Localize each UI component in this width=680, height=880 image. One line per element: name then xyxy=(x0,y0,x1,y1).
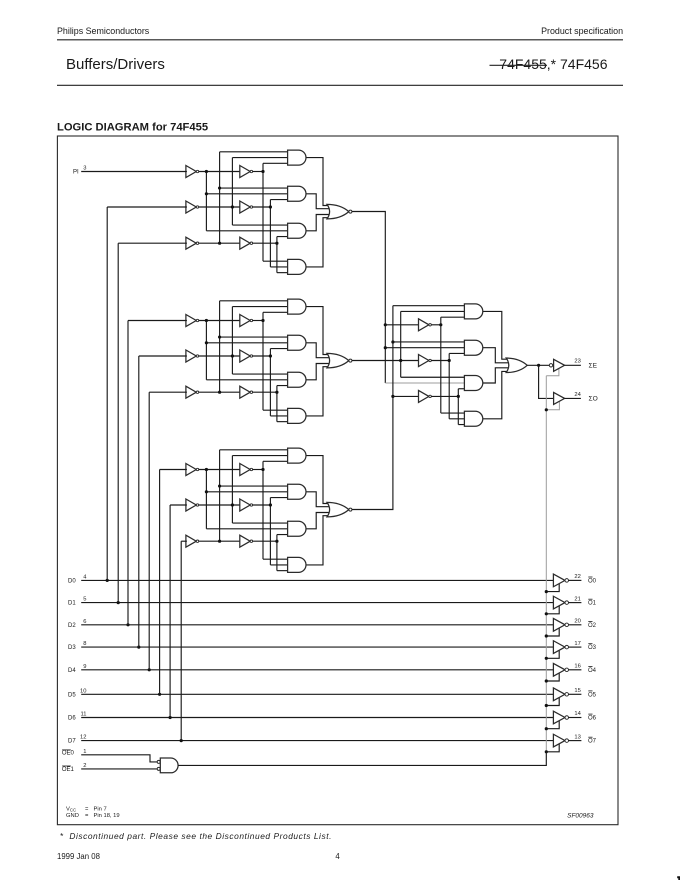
AND gate G21 xyxy=(288,299,306,314)
node enable tap O7 xyxy=(545,750,548,753)
wire P1 to AND-R3 in2 (grey) xyxy=(385,382,465,384)
node G3 Cbar branch AND2 xyxy=(218,484,221,487)
wire G1 Abar to AND3 in2 xyxy=(206,230,288,232)
enable wire IO buffer (grey) xyxy=(546,401,559,410)
wire P3bar vertical xyxy=(457,389,459,425)
node G3 C tap row3 xyxy=(275,540,278,543)
strikethrough over 74F455, xyxy=(490,64,548,66)
wire P2 to AND-R1 in2 xyxy=(401,310,466,312)
bubble O4 output xyxy=(565,668,569,672)
wire G3 A to AND1 in3 xyxy=(263,460,289,462)
node P1bar tap xyxy=(439,323,442,326)
svg-text:20: 20 xyxy=(574,619,580,625)
buffer IO xyxy=(554,392,565,404)
wire P2: G2-OR output to inverter U2 xyxy=(352,360,420,362)
wire G2 C to AND4 in3 xyxy=(277,421,289,423)
OR gate final xyxy=(506,358,527,373)
AND gate R2 xyxy=(464,340,482,355)
wire G2 C to AND3 in3 xyxy=(277,385,289,387)
inverter G3 col2 row3 xyxy=(240,535,250,547)
bubble G3-OR output xyxy=(349,508,352,511)
wire G1 row2 col2-out xyxy=(253,206,271,208)
bubble O1 output xyxy=(565,601,569,605)
node D2 tap junction xyxy=(126,623,129,626)
svg-text:D0: D0 xyxy=(68,579,76,585)
node G2 C tap row3 xyxy=(275,391,278,394)
wire D2 row feed xyxy=(128,320,187,322)
diagram frame xyxy=(57,136,618,825)
inverter G3 col2 row1 xyxy=(240,464,250,476)
wire D3 vertical riser xyxy=(138,356,140,647)
svg-text:Buffers/Drivers: Buffers/Drivers xyxy=(66,56,165,73)
inverter U3 (P3) xyxy=(419,390,429,402)
wire D5 horizontal line xyxy=(81,693,554,695)
wire G2 Cbar to AND2 in1 xyxy=(220,336,289,338)
wire G2 AND3-out to OR xyxy=(306,364,334,380)
wire G1 net-Abar vertical xyxy=(205,172,207,231)
wire AND-R2 out to final OR xyxy=(483,348,513,363)
AND gate G31 xyxy=(288,448,306,463)
buffer O7 output driver xyxy=(553,734,565,747)
wire D4 row feed xyxy=(149,391,187,393)
svg-text:OE1: OE1 xyxy=(62,767,75,773)
wire G3 net-Cbar vertical xyxy=(219,450,221,541)
AND gate G12 xyxy=(288,186,306,201)
node G2 A tap row1 xyxy=(261,319,264,322)
wire PI input line xyxy=(81,171,187,173)
wire G3 AND4-out to OR xyxy=(306,516,334,565)
wire G3 row1 col2-out xyxy=(253,469,263,471)
svg-text:4: 4 xyxy=(335,852,340,861)
wire D6 vertical riser xyxy=(169,505,171,718)
svg-text:8: 8 xyxy=(83,641,86,647)
wire G3 row3 col2-out xyxy=(253,540,277,542)
svg-text:6: 6 xyxy=(83,619,86,625)
svg-text:12: 12 xyxy=(80,735,86,741)
enable wire IE buffer (grey) xyxy=(546,369,559,376)
node G3 Bbar tap row2 xyxy=(231,503,234,506)
node P3 tap row3 xyxy=(391,395,394,398)
svg-text:O1: O1 xyxy=(588,601,597,607)
wire G2 row1 col1-out to col2-in xyxy=(199,320,241,322)
bubble O2 output xyxy=(565,623,569,627)
wire G1 Bbar to AND3 in1 xyxy=(232,224,288,226)
node P3bar tap xyxy=(457,395,460,398)
wire G2 Abar to AND3 in2 xyxy=(206,379,288,381)
svg-text:GND: GND xyxy=(66,813,79,819)
wire G1 row3 col1-out to col2-in xyxy=(199,242,241,244)
wire G3 net-B vertical xyxy=(269,498,271,565)
wire G2 net-Bbar vertical xyxy=(231,307,233,374)
inverter G2 col2 row3 xyxy=(240,386,250,398)
wire G3 Bbar to AND1 in2 xyxy=(232,455,288,457)
wire P1 row1 feed to inverter U1 xyxy=(385,324,419,326)
wire OE gate output to enable rail xyxy=(178,752,546,766)
wire O0 output, pin 22 xyxy=(569,579,582,581)
wire O5 output, pin 15 xyxy=(569,693,582,695)
node G3 Abar tap row1 xyxy=(205,468,208,471)
wire G2 row2 col2-out xyxy=(253,355,271,357)
inverter G3 col2 row2 xyxy=(240,499,250,511)
wire P1bar to AND-R1 in3 xyxy=(441,316,466,318)
bubble G2-OR output xyxy=(349,359,352,362)
svg-text:Pin 18, 19: Pin 18, 19 xyxy=(94,813,120,819)
AND gate G22 xyxy=(288,335,306,350)
enable stub O7 buffer xyxy=(546,744,559,752)
header rule bottom xyxy=(57,84,623,86)
wire G2 A to AND4 in1 xyxy=(263,409,289,411)
bubble IE buffer input xyxy=(549,364,552,367)
wire G1 net-B vertical xyxy=(269,200,271,267)
wire G1 AND4-out to OR xyxy=(306,218,334,267)
wire final-OR output xyxy=(527,364,549,366)
node G2 Abar tap row1 xyxy=(205,319,208,322)
AND gate R3 xyxy=(464,376,482,391)
inverter G3 col1 row3 xyxy=(186,535,196,547)
svg-text:OE0: OE0 xyxy=(62,751,75,757)
bubble O6 output xyxy=(565,716,569,720)
wire P2bar to AND-R2 in3 xyxy=(449,352,465,354)
wire G1 Abar to AND2 in2 xyxy=(206,193,288,195)
buffer O1 output driver xyxy=(553,596,565,609)
node G3 Cbar tap row3 xyxy=(218,540,221,543)
wire branch down to IO buffer xyxy=(539,365,555,398)
AND gate G34 xyxy=(288,557,306,572)
wire G2 net-Cbar vertical xyxy=(219,301,221,392)
AND gate G11 xyxy=(288,150,306,165)
wire G3 net-Abar vertical xyxy=(205,470,207,529)
wire G1 C to AND4 in3 xyxy=(277,272,289,274)
node D0 tap junction xyxy=(106,579,109,582)
wire P2bar inverter output xyxy=(431,360,449,362)
wire G3 Abar to AND2 in2 xyxy=(206,491,288,493)
svg-text:D6: D6 xyxy=(68,716,76,722)
wire D6 horizontal line xyxy=(81,717,554,719)
wire IE output, pin 23 xyxy=(565,364,581,366)
header rule top xyxy=(57,39,623,41)
node G1 A tap row1 xyxy=(261,170,264,173)
wire D5 vertical riser xyxy=(159,470,161,695)
wire G3 row3 col1-out to col2-in xyxy=(199,540,241,542)
wire G3 B to AND4 in2 xyxy=(270,564,288,566)
wire G2 B to AND4 in2 xyxy=(270,415,288,417)
wire G2 row1 col2-out xyxy=(253,320,263,322)
wire G2 AND2-out to OR xyxy=(306,343,334,358)
node P2bar tap xyxy=(448,359,451,362)
node D3 tap junction xyxy=(137,646,140,649)
wire O4 output, pin 16 xyxy=(569,669,582,671)
bubble O0 output xyxy=(565,579,569,583)
enable rail vertical (grey) xyxy=(545,376,547,752)
wire G2 Abar to AND2 in2 xyxy=(206,342,288,344)
inverter U2 (P2) xyxy=(419,355,429,367)
svg-text:13: 13 xyxy=(574,734,580,740)
enable stub O6 buffer xyxy=(546,721,559,729)
svg-text:Product specification: Product specification xyxy=(541,26,623,36)
node G2 Bbar tap row2 xyxy=(231,354,234,357)
AND gate G32 xyxy=(288,484,306,499)
wire P1bar inverter output xyxy=(431,324,441,326)
wire G1 row1 col2-out xyxy=(253,171,263,173)
AND gate G24 xyxy=(288,408,306,423)
wire P1: G1-OR output to right network xyxy=(352,212,385,384)
OR gate G3-OR xyxy=(327,502,349,516)
wire G3 AND3-out to OR xyxy=(306,513,334,529)
wire G3 row2 col2-out xyxy=(253,504,271,506)
wire G3 A to AND4 in1 xyxy=(263,558,289,560)
wire IO output, pin 24 xyxy=(565,397,581,399)
AND gate R4 xyxy=(464,411,482,426)
buffer O6 output driver xyxy=(553,711,565,724)
node enable rail IE/IO junction xyxy=(545,408,548,411)
svg-text:Philips Semiconductors: Philips Semiconductors xyxy=(57,26,150,36)
enable stub O5 buffer xyxy=(546,698,559,706)
inverter G2 col1 row3 xyxy=(186,386,196,398)
svg-text:O7: O7 xyxy=(588,739,597,745)
wire OE0 input xyxy=(81,755,157,762)
bubble O5 output xyxy=(565,693,569,697)
wire G3 AND1-out to OR xyxy=(306,456,334,504)
node enable tap O2 xyxy=(545,634,548,637)
inverter G2 col2 row2 xyxy=(240,350,250,362)
svg-text:ΣO: ΣO xyxy=(589,396,598,403)
node D7 tap junction xyxy=(180,739,183,742)
wire O3 output, pin 17 xyxy=(569,646,582,648)
node enable tap O6 xyxy=(545,727,548,730)
inverter G3 col1 row2 xyxy=(186,499,196,511)
wire G1 Bbar to AND1 in2 xyxy=(232,157,288,159)
wire G3 C to AND3 in3 xyxy=(277,534,289,536)
enable stub O3 buffer xyxy=(546,651,559,659)
svg-text:21: 21 xyxy=(574,596,580,602)
wire P3 to AND-R2 in1 xyxy=(393,341,466,343)
wire P3bar to AND-R3 in3 xyxy=(458,388,465,390)
wire G1 B to AND2 in3 xyxy=(270,199,288,201)
wire G1 Cbar to AND1 in1 xyxy=(220,151,289,153)
node enable tap O4 xyxy=(545,679,548,682)
inverter G3 col1 row1 xyxy=(186,464,196,476)
wire G2 Bbar to AND1 in2 xyxy=(232,306,288,308)
wire D2 horizontal line xyxy=(81,624,554,626)
wire G2 Bbar to AND3 in1 xyxy=(232,373,288,375)
wire P3bar to AND-R4 in3 xyxy=(458,424,465,426)
wire G2 Cbar to AND1 in1 xyxy=(220,300,289,302)
svg-text:D7: D7 xyxy=(68,739,76,745)
wire G1 net-Cbar vertical xyxy=(219,152,221,243)
wire G3 net-Bbar vertical xyxy=(231,456,233,523)
node D4 tap junction xyxy=(148,668,151,671)
node G1 B tap row2 xyxy=(269,205,272,208)
wire O2 output, pin 20 xyxy=(569,624,582,626)
wire P3bar inverter output xyxy=(431,395,458,397)
wire G2 net-Abar vertical xyxy=(205,321,207,380)
enable stub O0 buffer xyxy=(546,584,559,592)
svg-text:1: 1 xyxy=(83,749,86,755)
buffer O0 output driver xyxy=(553,574,565,587)
wire G2 net-B vertical xyxy=(269,349,271,416)
svg-text:SF00963: SF00963 xyxy=(567,813,594,820)
buffer IE xyxy=(554,359,565,371)
svg-text:D2: D2 xyxy=(68,623,76,629)
svg-text:3: 3 xyxy=(83,165,86,171)
node G1 C tap row3 xyxy=(275,242,278,245)
wire D1 horizontal line xyxy=(81,602,554,604)
svg-text:O3: O3 xyxy=(588,645,597,651)
wire G3 row2 col1-out to col2-in xyxy=(199,504,241,506)
wire G3 row1 col1-out to col2-in xyxy=(199,469,241,471)
svg-text:17: 17 xyxy=(574,641,580,647)
wire P3 row3 feed to inverter U3 xyxy=(393,395,420,397)
node G1 Cbar tap row3 xyxy=(218,242,221,245)
svg-text:ΣE: ΣE xyxy=(589,363,598,370)
node enable tap O0 xyxy=(545,590,548,593)
wire G1 Cbar to AND2 in1 xyxy=(220,187,289,189)
wire D7 vertical riser xyxy=(180,541,182,740)
svg-text:9: 9 xyxy=(83,664,86,670)
inverter G1 col1 row1 xyxy=(186,166,196,178)
wire G1 row2 col1-out to col2-in xyxy=(199,206,241,208)
svg-text:* Discontinued part. Please s: * Discontinued part. Please see the Disc… xyxy=(60,831,332,841)
wire D7 horizontal line xyxy=(81,740,554,742)
svg-text:O0: O0 xyxy=(588,579,597,585)
node G3 A tap row1 xyxy=(261,468,264,471)
wire G2 row3 col1-out to col2-in xyxy=(199,391,241,393)
wire P1 to AND-R2 in2 xyxy=(385,347,465,349)
wire D0 row feed xyxy=(107,206,187,208)
node IE/IO branch xyxy=(537,364,540,367)
inverter G2 col2 row1 xyxy=(240,315,250,327)
svg-text:5: 5 xyxy=(83,597,86,603)
inverter G2 col1 row2 xyxy=(186,350,196,362)
wire P2bar vertical xyxy=(448,353,450,418)
wire G3 Abar to AND3 in2 xyxy=(206,528,288,530)
wire G3 Cbar to AND2 in1 xyxy=(220,485,289,487)
svg-text:Pin 7: Pin 7 xyxy=(94,806,107,812)
wire G2 row3 col2-out xyxy=(253,391,277,393)
inverter G1 col1 row2 xyxy=(186,201,196,213)
wire G2 net-A vertical xyxy=(262,312,264,410)
wire P2 to AND-R3 in1 xyxy=(401,376,466,378)
svg-text:14: 14 xyxy=(574,711,581,717)
enable stub O2 buffer xyxy=(546,628,559,636)
wire D5 row feed xyxy=(160,469,187,471)
wire D0 vertical riser xyxy=(106,207,108,580)
wire P2bar to AND-R4 in2 xyxy=(449,418,465,420)
OR gate G2-OR xyxy=(327,353,349,368)
wire G1 row1 col1-out to col2-in xyxy=(199,171,241,173)
wire O6 output, pin 14 xyxy=(569,717,582,719)
inverter G1 col2 row3 xyxy=(240,237,250,249)
svg-text:11: 11 xyxy=(80,712,86,718)
wire P1bar vertical xyxy=(440,317,442,413)
svg-text:=: = xyxy=(85,813,89,819)
bubble O7 output xyxy=(565,739,569,743)
wire G1 net-C vertical xyxy=(276,237,278,273)
wire G2 row2 col1-out to col2-in xyxy=(199,355,241,357)
node G2 B tap row2 xyxy=(269,354,272,357)
AND gate R1 xyxy=(464,304,482,319)
node enable tap O1 xyxy=(545,612,548,615)
wire D4 horizontal line xyxy=(81,669,554,671)
wire G3 Bbar to AND3 in1 xyxy=(232,522,288,524)
wire G1 AND1-out to OR xyxy=(306,158,334,206)
wire G2 B to AND2 in3 xyxy=(270,348,288,350)
wire G1 C to AND3 in3 xyxy=(277,236,289,238)
node G1 Bbar tap row2 xyxy=(231,205,234,208)
svg-text:24: 24 xyxy=(574,392,581,398)
svg-text:O2: O2 xyxy=(588,623,597,629)
node G1 Abar branch AND2 xyxy=(205,192,208,195)
node enable tap O5 xyxy=(545,704,548,707)
wire AND-R4 out to final OR xyxy=(483,371,513,418)
svg-text:22: 22 xyxy=(574,574,580,580)
inverter G2 col1 row1 xyxy=(186,315,196,327)
wire P1bar to AND-R4 in1 xyxy=(441,412,466,414)
svg-text:15: 15 xyxy=(574,688,580,694)
OR gate G1-OR xyxy=(327,204,349,219)
wire G2 AND1-out to OR xyxy=(306,307,334,355)
wire O1 output, pin 21 xyxy=(569,602,582,604)
svg-text:VCC: VCC xyxy=(66,806,76,812)
wire OE1 input xyxy=(81,768,157,770)
svg-text:O5: O5 xyxy=(588,692,597,698)
wire G3 net-A vertical xyxy=(262,461,264,559)
wire AND-R3 out to final OR xyxy=(483,368,513,383)
wire D7 row feed xyxy=(181,540,187,542)
inverter G1 col2 row1 xyxy=(240,166,250,178)
wire G1 B to AND4 in2 xyxy=(270,266,288,268)
wire D3 horizontal line xyxy=(81,646,554,648)
bubble O3 output xyxy=(565,645,569,649)
wire G1 row3 col2-out xyxy=(253,242,277,244)
buffer O4 output driver xyxy=(553,663,565,676)
AND gate OE enable xyxy=(160,758,178,773)
node G1 Abar tap row1 xyxy=(205,170,208,173)
wire P2 vertical xyxy=(400,311,402,377)
AND gate G13 xyxy=(288,223,306,238)
node D1 tap junction xyxy=(117,601,120,604)
buffer O5 output driver xyxy=(553,688,565,701)
wire G1 AND2-out to OR xyxy=(306,194,334,209)
node P3 branch AND-R2 xyxy=(391,340,394,343)
svg-text:4: 4 xyxy=(83,574,87,580)
node G3 Abar branch AND2 xyxy=(205,490,208,493)
wire D1 vertical riser xyxy=(117,243,119,602)
wire D0 horizontal line xyxy=(81,579,554,581)
inverter U1 (P1) xyxy=(419,319,429,331)
AND gate G33 xyxy=(288,521,306,536)
wire G1 AND3-out to OR xyxy=(306,215,334,231)
node G2 Cbar branch AND2 xyxy=(218,335,221,338)
wire D2 vertical riser xyxy=(127,321,129,625)
bubble G1-OR output xyxy=(349,210,352,213)
wire D4 vertical riser xyxy=(148,392,150,670)
node G2 Cbar tap row3 xyxy=(218,391,221,394)
svg-text:D3: D3 xyxy=(68,645,76,651)
wire G3 C to AND4 in3 xyxy=(277,570,289,572)
node P1 tap row1 xyxy=(384,323,387,326)
wire G2 A to AND1 in3 xyxy=(263,311,289,313)
node G2 Abar branch AND2 xyxy=(205,341,208,344)
wire G2 net-C vertical xyxy=(276,386,278,422)
node enable tap O3 xyxy=(545,657,548,660)
svg-text:10: 10 xyxy=(80,688,86,694)
svg-text:74F455,* 74F456: 74F455,* 74F456 xyxy=(499,56,607,72)
wire AND-R1 out to final OR xyxy=(483,311,513,359)
AND gate G23 xyxy=(288,372,306,387)
node P2 tap xyxy=(399,359,402,362)
page corner mark xyxy=(677,876,680,880)
